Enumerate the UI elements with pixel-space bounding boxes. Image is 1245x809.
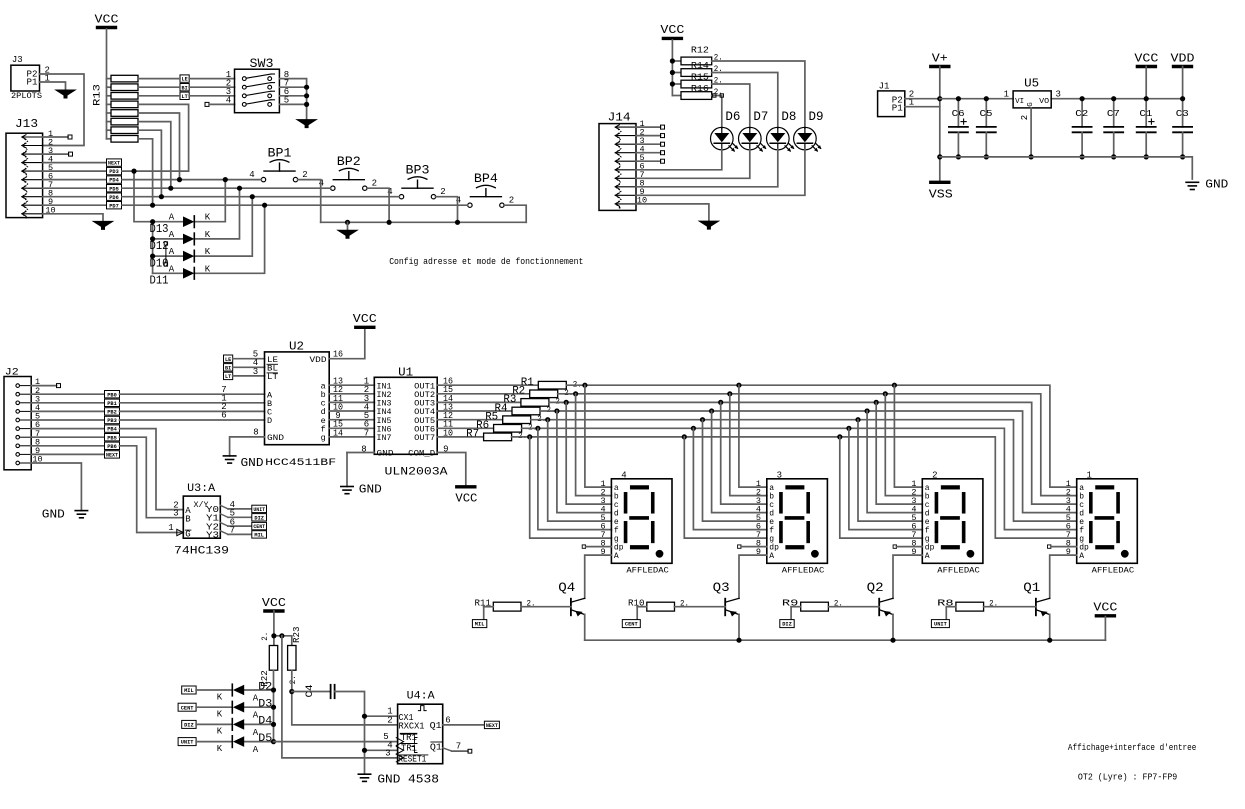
- 7-segment display digit 3: [767, 479, 828, 564]
- junction (PD3 tap): [131, 169, 136, 174]
- wire SW3 pin8 to bus: [279, 79, 306, 120]
- capacitor C5: [985, 99, 987, 127]
- power symbol VCC (LED resistors): [663, 37, 681, 40]
- wire R10 to Q3 base: [675, 606, 726, 608]
- junction (anode bus): [271, 705, 276, 710]
- net label BI (top): [180, 84, 189, 91]
- junction (C5 top): [984, 96, 989, 101]
- svg-text:7: 7: [230, 526, 235, 536]
- wire dp pad digit 3: [741, 546, 767, 548]
- svg-text:OT2 (Lyre) : FP7-FP9: OT2 (Lyre) : FP7-FP9: [1078, 773, 1177, 783]
- svg-text:IN7: IN7: [377, 433, 392, 443]
- svg-text:VCC: VCC: [95, 13, 119, 26]
- svg-text:BI: BI: [225, 365, 231, 371]
- wire R13-8 down to PD7: [138, 139, 153, 205]
- ground (J13): [93, 221, 113, 229]
- wire J14 pin10 to ground: [636, 204, 709, 221]
- wire top rail right segment: [1051, 98, 1182, 100]
- ground GND (U1): [341, 486, 353, 488]
- 7-segment display digit 4: [611, 479, 672, 564]
- junction+tap digit2 e: [855, 417, 860, 422]
- svg-text:GND: GND: [267, 433, 284, 443]
- wire J14 pin1 to pad: [636, 126, 661, 128]
- wire LT to U2 pin3: [233, 375, 265, 377]
- svg-text:AFFLEDAC: AFFLEDAC: [937, 567, 980, 576]
- wire J1 pin2 to rail: [905, 98, 940, 100]
- net label NEXT (J2): [105, 451, 120, 458]
- net label PD4: [107, 176, 122, 183]
- resistor R16: [672, 95, 681, 97]
- svg-text:C4: C4: [305, 685, 316, 698]
- svg-text:NEXT: NEXT: [106, 453, 119, 459]
- svg-text:K: K: [205, 213, 211, 223]
- svg-text:CENT: CENT: [253, 524, 265, 530]
- svg-text:DIZ: DIZ: [254, 515, 264, 521]
- wire U4 Q1bar to pad: [443, 748, 452, 751]
- svg-text:K: K: [205, 247, 211, 257]
- svg-text:DIZ: DIZ: [184, 723, 194, 729]
- wire anode to diode D10: [153, 255, 183, 257]
- wire diode anode bus: [152, 222, 154, 274]
- svg-text:D3: D3: [258, 699, 272, 711]
- connector J13: [6, 133, 43, 217]
- wire J14 pin4 to pad: [636, 152, 661, 154]
- wire BP4 to ground bus: [504, 205, 526, 222]
- wire diode D13 cathode to PD4: [196, 180, 226, 222]
- wire V+ / VSS vertical: [939, 67, 941, 183]
- net label DIZ (base): [780, 620, 794, 628]
- svg-text:VCC: VCC: [660, 24, 684, 37]
- svg-text:Q4: Q4: [558, 581, 575, 595]
- svg-text:J14: J14: [608, 110, 631, 124]
- wire Q2 emitter to rail: [892, 614, 894, 640]
- wire J14 pin7 to D7 cathode: [636, 149, 750, 178]
- svg-text:DIZ: DIZ: [782, 622, 792, 628]
- wire BP1 to ground bus: [298, 180, 321, 223]
- pad (U4 pin7): [468, 749, 472, 753]
- svg-text:A: A: [1079, 552, 1084, 561]
- wire diode D11 cathode to PD7: [196, 205, 265, 273]
- junction (R23/C4): [289, 689, 294, 694]
- wire J13 pin7 to PD5 label: [43, 187, 107, 189]
- svg-text:GND: GND: [359, 482, 382, 496]
- junction (VCC bus): [670, 70, 675, 75]
- wire U1 OUT3 to R3: [437, 401, 521, 403]
- svg-text:2: 2: [509, 195, 514, 205]
- wire digit4 A to Q4 collector: [585, 555, 612, 598]
- junction (VSS ground rail): [937, 154, 942, 159]
- wire VCC to U4 RESET1: [282, 636, 398, 758]
- junction (C7 top): [1111, 96, 1116, 101]
- wire Q3 emitter to rail: [738, 614, 740, 640]
- wire J2 pin8 to PB6: [31, 445, 104, 447]
- LED D8: [767, 127, 790, 150]
- svg-text:C2: C2: [1075, 108, 1088, 119]
- DIP switch SW3: [235, 69, 280, 113]
- wire R13-3 to LT label: [138, 95, 180, 97]
- pad (digit 2 dp): [893, 545, 896, 548]
- diode D11: [183, 268, 194, 279]
- 7-segment display digit 1: [1077, 479, 1138, 564]
- wire J13 pin8 to PD6 label: [43, 196, 107, 198]
- wire LE to SW3 pin1: [189, 78, 234, 80]
- wire diode D12 cathode to PD5: [196, 188, 240, 239]
- junction+tap digit2 f: [846, 426, 851, 431]
- svg-text:4: 4: [621, 471, 626, 481]
- svg-text:LT: LT: [267, 372, 278, 382]
- wire PB0 to U2 A: [120, 393, 265, 395]
- junction (C7 bottom): [1111, 154, 1116, 159]
- net label PD6: [107, 193, 122, 200]
- wire BI to U2 pin4: [233, 366, 265, 368]
- svg-text:2: 2: [387, 715, 392, 725]
- transistor Q4: [570, 599, 572, 616]
- net label DIZ (diode): [182, 720, 196, 728]
- svg-text:Config adresse et mode de fonc: Config adresse et mode de fonctionnement: [389, 257, 583, 267]
- svg-text:C5: C5: [980, 108, 993, 119]
- wire SW3 pin5 to bus: [279, 103, 306, 105]
- connector J3: [11, 65, 40, 91]
- svg-text:Y3: Y3: [206, 531, 219, 541]
- wire CX bus to U4 pin1: [365, 715, 398, 717]
- power symbol VDD: [1174, 65, 1192, 68]
- wire ground rail: [940, 157, 1193, 179]
- wire anode to diode D12: [153, 238, 183, 240]
- power symbol VCC (COM_D): [457, 485, 475, 488]
- wire pad to SW3 pin4: [209, 103, 235, 105]
- push button BP1: [261, 177, 265, 181]
- wire U1 OUT4 to R4: [437, 410, 512, 412]
- junction (C1 bottom): [1144, 154, 1149, 159]
- wire BI to SW3 pin2: [189, 86, 234, 88]
- wire J2 pin6 to PB4: [31, 428, 104, 430]
- LED D7: [739, 127, 762, 150]
- wire R13-7 down to PD6: [138, 130, 161, 197]
- wire J2 pin1 to pad: [31, 385, 56, 387]
- svg-text:UNIT: UNIT: [934, 622, 948, 628]
- junction (anode bus): [150, 236, 155, 241]
- wire VCC to rail: [1104, 617, 1106, 641]
- wire PD4 row to BP1: [122, 179, 261, 181]
- svg-text:PD7: PD7: [109, 203, 119, 209]
- IC U1 ULN2003A: [374, 377, 437, 454]
- ground GND (U4): [358, 773, 370, 775]
- wire U2 VDD to VCC: [329, 327, 365, 358]
- junction+tap digit2 a: [892, 383, 897, 388]
- pads between D12/D10: [164, 242, 167, 245]
- svg-text:K: K: [205, 264, 211, 274]
- wire U3 Y0 to UNIT: [220, 505, 228, 509]
- svg-text:7: 7: [364, 428, 369, 438]
- wire VCC bus (R12-R16): [671, 40, 673, 96]
- wire PB5 to U3 B: [120, 437, 184, 518]
- svg-text:V+: V+: [932, 52, 948, 65]
- wire J14 pin8 to D8 cathode: [636, 149, 778, 187]
- capacitor C7: [1113, 99, 1115, 127]
- connector J14: [599, 124, 636, 211]
- net label MIL (base): [472, 620, 486, 628]
- svg-text:3: 3: [777, 471, 782, 481]
- junction (anode bus): [150, 254, 155, 259]
- wire U2 a to U1 IN1: [329, 384, 374, 386]
- connector J1: [878, 91, 905, 117]
- ground (buttons): [338, 230, 358, 238]
- ground (SW3): [297, 120, 317, 128]
- junction (RESET branch): [279, 633, 284, 638]
- junction (anode bus): [271, 687, 276, 692]
- svg-text:K: K: [217, 710, 223, 720]
- IC U3:A 74HC139: [183, 496, 220, 538]
- svg-text:Q2: Q2: [867, 581, 884, 595]
- wire segment net a: [566, 385, 1076, 487]
- wire Q1 emitter to rail: [1049, 614, 1051, 640]
- connector J2: [4, 377, 31, 470]
- wire U1 OUT1 to R1: [437, 384, 538, 386]
- svg-text:R14: R14: [691, 60, 709, 71]
- wire R9 to DIZ label: [790, 607, 792, 621]
- net label UNIT (diode): [178, 738, 196, 746]
- LED D9: [794, 127, 817, 150]
- wire J13 pin9 to PD7 label: [43, 204, 107, 206]
- diode D3: [231, 701, 233, 713]
- push button BP3: [399, 195, 403, 199]
- net label UNIT (base): [931, 620, 949, 628]
- resistor R15: [672, 83, 681, 85]
- svg-text:VDD: VDD: [310, 355, 327, 365]
- svg-text:VCC: VCC: [1093, 602, 1117, 615]
- svg-text:D11: D11: [150, 274, 169, 288]
- wire U3 Y1 to DIZ: [220, 514, 228, 518]
- svg-text:A: A: [769, 552, 774, 561]
- net label MIL (U3): [252, 531, 267, 538]
- wire diode D5 anode to bus: [245, 741, 274, 743]
- svg-text:C6: C6: [952, 108, 965, 119]
- wire SW3 pin6 to bus: [279, 95, 306, 97]
- svg-text:8: 8: [361, 444, 366, 454]
- resistor R7: [484, 433, 512, 441]
- svg-text:C7: C7: [1107, 108, 1120, 119]
- svg-text:U4:A: U4:A: [407, 691, 435, 703]
- junction+tap digit3 b: [727, 391, 732, 396]
- wire emitter rail: [585, 639, 1106, 641]
- diode D12: [183, 234, 194, 245]
- svg-text:1: 1: [1004, 90, 1009, 100]
- svg-text:BP1: BP1: [268, 147, 292, 161]
- pad (digit 1 dp): [1048, 545, 1051, 548]
- power symbol VCC (emitters): [1096, 614, 1114, 617]
- svg-text:U5: U5: [1024, 77, 1039, 91]
- resistor R6: [494, 425, 522, 433]
- pad (digit 4 dp): [582, 545, 585, 548]
- svg-text:74HC139: 74HC139: [174, 545, 229, 557]
- junction (C2 bottom): [1080, 154, 1085, 159]
- junction (U5 ground): [1029, 154, 1034, 159]
- ground GND (U2): [223, 455, 235, 457]
- wire diode D10 cathode to PD6: [196, 197, 253, 256]
- svg-text:1: 1: [1086, 471, 1091, 481]
- svg-text:Q1: Q1: [1023, 581, 1040, 595]
- wire J3 pin1 to ground: [40, 82, 66, 90]
- wire PD3 row: [122, 170, 189, 172]
- wire VCC to R13 bus: [106, 29, 108, 139]
- svg-text:ULN2003A: ULN2003A: [385, 467, 448, 479]
- svg-text:PD5: PD5: [109, 186, 119, 192]
- wire segment net f: [522, 428, 1077, 529]
- svg-text:GND: GND: [377, 448, 394, 458]
- wire J2 pin3 to PB1: [31, 402, 104, 404]
- svg-text:U2: U2: [289, 339, 304, 353]
- junction (VCC bus): [670, 58, 675, 63]
- svg-text:U1: U1: [398, 365, 413, 379]
- wire R13-2 to BI label: [138, 86, 180, 88]
- wire J13 pin4 to NEXT label: [43, 162, 107, 164]
- wire U3 Y2 to CENT: [220, 523, 228, 527]
- svg-text:A: A: [169, 264, 175, 274]
- net label PD3: [107, 167, 122, 174]
- wire R8 to UNIT label: [945, 607, 947, 621]
- wire segment net b: [558, 394, 1077, 496]
- wire anode to diode D11: [153, 272, 183, 274]
- svg-text:D4: D4: [258, 716, 272, 728]
- svg-text:D9: D9: [809, 110, 824, 124]
- svg-text:J2: J2: [5, 367, 19, 379]
- wire ground stub (buttons): [347, 222, 349, 230]
- resistor R12: [672, 60, 681, 62]
- svg-text:6: 6: [221, 411, 226, 421]
- junction+tap digit3 a: [736, 383, 741, 388]
- wire J13 pin5 to PD3 label: [43, 170, 107, 172]
- diode D4: [231, 719, 233, 731]
- svg-text:COM_D: COM_D: [408, 448, 435, 458]
- junction (emitter rail): [1047, 638, 1052, 643]
- wire R15 to D7: [712, 84, 750, 128]
- wire digit3 A to Q3 collector: [739, 555, 767, 598]
- wire VCC down: [273, 611, 275, 646]
- svg-text:NEXT: NEXT: [486, 723, 499, 729]
- svg-text:J3: J3: [12, 55, 23, 65]
- svg-text:P1: P1: [892, 104, 903, 114]
- svg-text:6: 6: [445, 715, 450, 725]
- junction+tap digit4 g: [527, 434, 532, 439]
- junction (C3 top): [1180, 96, 1185, 101]
- svg-text:BP4: BP4: [474, 172, 498, 186]
- wire J13 pin1 to pad: [43, 136, 68, 138]
- junction+tap digit2 b: [883, 391, 888, 396]
- svg-text:D: D: [267, 416, 272, 426]
- svg-text:PB3: PB3: [107, 418, 117, 424]
- wire PB3 to U2 D: [120, 419, 265, 421]
- wire U3 Y3 to MIL: [220, 531, 228, 535]
- wire VDD drop: [1182, 67, 1184, 99]
- svg-text:4: 4: [249, 170, 254, 180]
- svg-text:K: K: [205, 230, 211, 240]
- wire MIL to diode D2: [196, 689, 231, 691]
- junction (VCC/R22): [271, 633, 276, 638]
- wire BP2 to ground bus: [367, 188, 389, 222]
- wire J14 pin6 to D6 cathode: [636, 149, 722, 170]
- wire PB4 to U3 A: [120, 429, 184, 510]
- junction (CX): [362, 714, 367, 719]
- capacitor C3: [1182, 99, 1184, 127]
- LED D6: [711, 127, 734, 150]
- wire GND bus to U4 pin4: [365, 749, 398, 751]
- wire J13 pin10 to ground: [43, 214, 103, 222]
- svg-text:VDD: VDD: [1171, 52, 1195, 65]
- pads (R16 output): [713, 94, 716, 97]
- power symbol VSS: [931, 181, 949, 184]
- resistor R10: [647, 602, 675, 611]
- svg-text:PB2: PB2: [107, 410, 117, 416]
- junction (emitter rail): [890, 638, 895, 643]
- svg-text:1: 1: [168, 523, 173, 533]
- wire segment net d: [540, 411, 1077, 513]
- wire R22 to diode anode bus: [273, 670, 275, 690]
- wire R11 to Q4 base: [521, 606, 571, 608]
- capacitor C2: [1081, 99, 1083, 127]
- svg-text:2: 2: [302, 170, 307, 180]
- wire U2 d to U1 IN4: [329, 410, 374, 412]
- net label PB5: [105, 434, 120, 441]
- wire J3 pin2 to J13 pin2: [40, 74, 85, 146]
- net label MIL (diode): [182, 686, 196, 694]
- svg-text:AFFLEDAC: AFFLEDAC: [782, 567, 825, 576]
- wire PD6 row to BP3: [122, 196, 399, 198]
- pad (J13 pin1): [68, 135, 72, 139]
- svg-text:G: G: [185, 529, 190, 539]
- svg-text:D7: D7: [753, 110, 768, 124]
- svg-text:A: A: [253, 745, 259, 755]
- wire U2 c to U1 IN3: [329, 401, 374, 403]
- power symbol VCC (U4): [265, 609, 283, 612]
- svg-text:D5: D5: [258, 733, 272, 745]
- svg-text:2.: 2.: [260, 632, 270, 641]
- svg-text:GND: GND: [42, 507, 65, 521]
- junction (PD4/R13): [177, 177, 182, 182]
- svg-text:VI: VI: [1015, 98, 1024, 106]
- svg-text:VCC: VCC: [353, 313, 377, 326]
- junction (PD7/D11): [262, 203, 267, 208]
- svg-text:AFFLEDAC: AFFLEDAC: [1092, 567, 1135, 576]
- svg-text:J13: J13: [15, 117, 38, 131]
- wire C4 left: [292, 691, 331, 693]
- wire J2 pin9 to NEXT: [31, 453, 104, 455]
- wire U1 OUT7 to R7: [437, 436, 483, 438]
- svg-text:VO: VO: [1039, 98, 1050, 106]
- pad (J14 pin1): [661, 125, 665, 129]
- junction (C5 bottom): [984, 154, 989, 159]
- net label UNIT (U3): [252, 505, 267, 512]
- net label PB1: [105, 399, 120, 406]
- wire PD3 tap down to D13 anode: [134, 171, 153, 222]
- net label CENT (U3): [252, 522, 267, 529]
- wire segment net e: [531, 420, 1077, 521]
- resistor R9: [801, 602, 829, 611]
- svg-text:C1: C1: [1139, 108, 1152, 119]
- wire J2 pin10 to ground: [31, 463, 81, 511]
- svg-text:MIL: MIL: [254, 533, 264, 539]
- svg-text:4: 4: [226, 96, 231, 106]
- svg-text:K: K: [217, 744, 223, 754]
- svg-text:R23: R23: [291, 626, 302, 643]
- svg-text:GND: GND: [377, 773, 400, 787]
- wire R13-4 down to PD3: [138, 104, 189, 171]
- net label CENT (base): [622, 620, 640, 628]
- svg-text:NEXT: NEXT: [108, 161, 121, 167]
- wire D5 row to U4 pin5: [274, 741, 398, 743]
- wire J2 pin5 to PB3: [31, 419, 104, 421]
- pad (J14 pin2): [661, 134, 665, 138]
- junction+tap digit3 f: [691, 426, 696, 431]
